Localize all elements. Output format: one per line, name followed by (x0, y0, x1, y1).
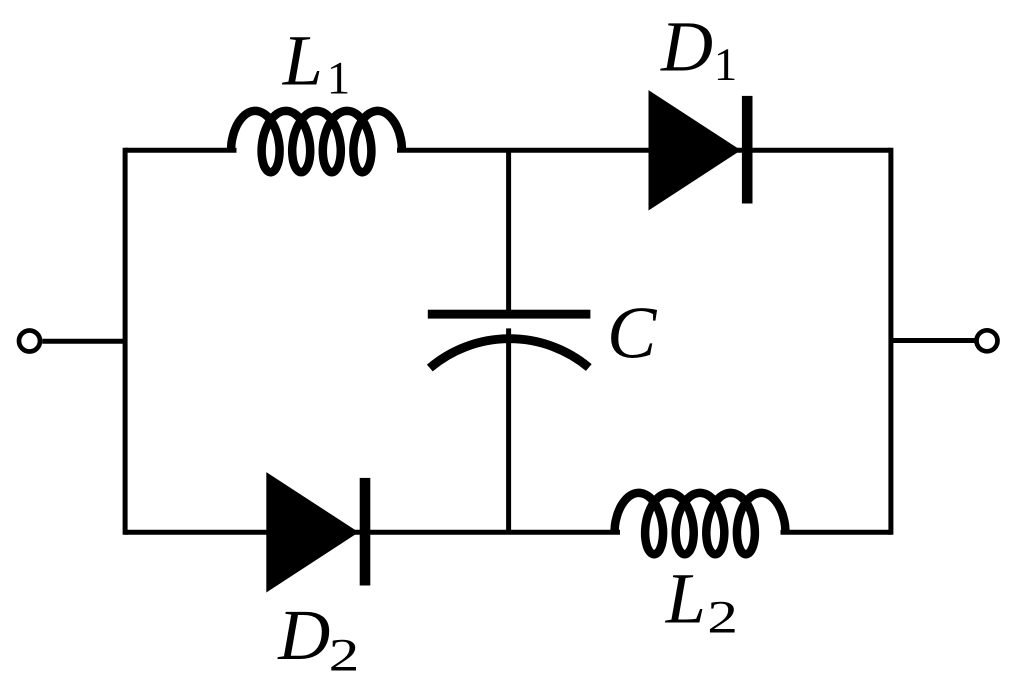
svg-text:2: 2 (329, 628, 360, 680)
svg-text:L: L (665, 558, 706, 638)
svg-text:D: D (277, 595, 330, 675)
diode D1 triangle (649, 90, 741, 210)
svg-text:D: D (660, 6, 713, 86)
wire: right port stub (891, 338, 975, 343)
diode D2 cathode bar (360, 478, 371, 586)
svg-text:1: 1 (714, 39, 738, 91)
inductor L2 (615, 493, 786, 554)
wire: bottom rail right segment (781, 530, 891, 535)
wire: left port stub (42, 339, 125, 344)
wire: top rail left segment (125, 148, 236, 153)
capacitor C curved plate (430, 339, 589, 368)
diode D2 triangle (266, 472, 358, 592)
terminal: left port circle (19, 331, 40, 352)
diode D1 cathode bar (742, 96, 753, 204)
wire: bottom rail left segment (125, 530, 620, 535)
svg-text:2: 2 (707, 591, 738, 643)
svg-text:C: C (607, 292, 658, 374)
terminal: right port circle (977, 330, 998, 351)
capacitor C top plate (428, 310, 591, 319)
wire: left vertical (123, 148, 128, 535)
wire: top rail right segment (397, 148, 891, 153)
wire: middle vertical upper (506, 150, 511, 311)
wire: right vertical (888, 148, 893, 535)
svg-text:1: 1 (327, 53, 351, 105)
wire: middle vertical lower (506, 328, 511, 532)
inductor L1 (231, 111, 402, 172)
svg-text:L: L (282, 21, 323, 101)
